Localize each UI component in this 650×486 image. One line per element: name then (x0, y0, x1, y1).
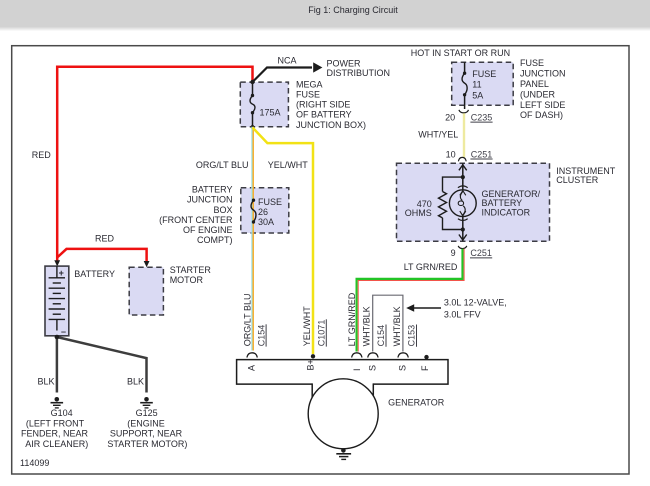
svg-text:S: S (397, 365, 407, 371)
svg-text:G104: G104 (51, 408, 73, 418)
connector C251 lower (458, 246, 467, 249)
junction dot battery negative (55, 335, 60, 340)
svg-text:175A: 175A (260, 107, 281, 117)
svg-text:3.0L 12-VALVE,: 3.0L 12-VALVE, (444, 297, 507, 307)
fuse element 11 (462, 62, 467, 109)
svg-text:I: I (352, 368, 362, 371)
svg-text:Fig 1: Charging Circuit: Fig 1: Charging Circuit (308, 5, 398, 15)
svg-text:3.0L FFV: 3.0L FFV (444, 310, 481, 320)
svg-text:20: 20 (445, 112, 455, 122)
svg-text:G125: G125 (136, 408, 158, 418)
NCA power distribution arrow (253, 62, 323, 82)
wire lt grn/red (357, 249, 465, 352)
svg-text:C251: C251 (470, 248, 492, 258)
svg-text:BOX: BOX (213, 205, 232, 215)
cluster internal wire (459, 163, 467, 241)
bracket 3.0L callout (373, 295, 403, 351)
svg-text:RED: RED (32, 150, 52, 160)
junction dot mega fuse top (250, 80, 254, 84)
battery junction box fuse 26 box (241, 188, 289, 233)
fuse 11 box (452, 62, 514, 105)
svg-text:PANEL: PANEL (520, 79, 549, 89)
svg-text:COMPT): COMPT) (197, 235, 233, 245)
svg-text:HOT IN START OR RUN: HOT IN START OR RUN (411, 48, 510, 58)
svg-text:(FRONT CENTER: (FRONT CENTER (159, 215, 233, 225)
svg-text:26: 26 (258, 207, 268, 217)
svg-text:C1071: C1071 (317, 320, 327, 347)
svg-text:LT GRN/RED: LT GRN/RED (404, 262, 458, 272)
svg-text:C153: C153 (407, 325, 417, 347)
svg-text:POWER: POWER (327, 58, 362, 68)
svg-text:DISTRIBUTION: DISTRIBUTION (327, 68, 391, 78)
svg-text:BLK: BLK (38, 376, 55, 386)
svg-text:5A: 5A (472, 91, 483, 101)
svg-text:AIR CLEANER): AIR CLEANER) (25, 439, 88, 449)
arrowhead at battery positive (54, 260, 60, 266)
svg-text:GENERATOR: GENERATOR (388, 398, 445, 408)
wire red branch to starter motor (57, 249, 146, 262)
svg-text:11: 11 (472, 80, 481, 90)
svg-text:FUSE: FUSE (520, 58, 544, 68)
svg-text:10: 10 (446, 149, 456, 159)
ground G125 (140, 397, 153, 408)
svg-text:RED: RED (95, 234, 115, 244)
svg-text:9: 9 (451, 248, 456, 258)
svg-text:JUNCTION: JUNCTION (520, 69, 566, 79)
title bar (0, 0, 650, 31)
starter motor box (129, 267, 163, 315)
svg-text:MEGA: MEGA (296, 79, 323, 89)
svg-text:+: + (59, 268, 64, 278)
svg-text:S: S (368, 365, 378, 371)
svg-text:BATTERY: BATTERY (74, 269, 115, 279)
svg-text:C154: C154 (256, 325, 266, 347)
svg-text:(RIGHT SIDE: (RIGHT SIDE (296, 100, 350, 110)
svg-text:LEFT SIDE: LEFT SIDE (520, 100, 565, 110)
wire blk right to G125 (57, 337, 147, 393)
svg-text:ORG/LT BLU: ORG/LT BLU (196, 160, 249, 170)
wire red battery feed (57, 67, 252, 261)
svg-text:OF DASH): OF DASH) (520, 110, 563, 120)
arrowhead at starter motor (144, 261, 150, 267)
dot at F terminal (424, 355, 428, 359)
svg-text:–: – (61, 327, 66, 337)
connector at S1 terminal (368, 353, 378, 358)
svg-text:BLK: BLK (127, 376, 144, 386)
svg-text:WHT/YEL: WHT/YEL (418, 130, 458, 140)
fuse element 26 (251, 199, 256, 224)
svg-text:INDICATOR: INDICATOR (482, 207, 531, 217)
ground G104 (51, 397, 64, 408)
battery (45, 266, 69, 336)
svg-text:FUSE: FUSE (296, 90, 320, 100)
svg-text:SUPPORT, NEAR: SUPPORT, NEAR (110, 429, 183, 439)
connector dot B+ (311, 354, 315, 358)
connector at A terminal (247, 353, 257, 358)
svg-text:30A: 30A (258, 217, 274, 227)
svg-text:STARTER MOTOR): STARTER MOTOR) (107, 439, 187, 449)
svg-text:FUSE: FUSE (472, 69, 496, 79)
generator circle (308, 379, 378, 449)
fuse element 175A (250, 82, 255, 127)
generator terminal bar (237, 360, 448, 398)
wire org/lt blu (252, 127, 253, 351)
svg-text:OF ENGINE: OF ENGINE (183, 225, 233, 235)
svg-text:(UNDER: (UNDER (520, 89, 555, 99)
wire wht/yel (463, 113, 465, 157)
svg-text:(ENGINE: (ENGINE (127, 418, 165, 428)
callout arrow 3.0L (406, 304, 441, 311)
resistor 470 ohms (439, 177, 463, 229)
svg-text:C235: C235 (471, 112, 493, 122)
svg-text:STARTER: STARTER (170, 265, 212, 275)
svg-text:CLUSTER: CLUSTER (556, 175, 599, 185)
mega fuse box (240, 82, 288, 127)
svg-text:(LEFT FRONT: (LEFT FRONT (26, 418, 85, 428)
connector C251 upper (458, 157, 466, 161)
svg-text:YEL/WHT: YEL/WHT (268, 160, 309, 170)
svg-text:B+: B+ (306, 359, 316, 370)
svg-text:FENDER, NEAR: FENDER, NEAR (21, 429, 89, 439)
indicator lamp (449, 186, 476, 221)
svg-text:OF BATTERY: OF BATTERY (296, 110, 352, 120)
svg-text:WHT/BLK: WHT/BLK (361, 306, 371, 346)
svg-text:OHMS: OHMS (405, 208, 432, 218)
wire yel/wht (253, 128, 314, 355)
connector at I terminal (352, 353, 362, 358)
svg-text:YEL/WHT: YEL/WHT (302, 306, 312, 347)
svg-text:WHT/BLK: WHT/BLK (392, 306, 402, 346)
svg-text:MOTOR: MOTOR (170, 275, 204, 285)
generator ground (336, 448, 351, 459)
svg-text:C251: C251 (471, 149, 493, 159)
svg-text:F: F (420, 365, 430, 371)
connector C235 (459, 110, 469, 113)
junction dot mega fuse bottom (251, 125, 255, 129)
svg-text:NCA: NCA (277, 55, 296, 65)
svg-text:JUNCTION BOX): JUNCTION BOX) (296, 120, 366, 130)
junction dots cluster (461, 175, 465, 179)
svg-text:ORG/LT BLU: ORG/LT BLU (242, 294, 252, 347)
svg-text:A: A (246, 365, 256, 371)
connector at S2 terminal (398, 353, 408, 358)
svg-text:BATTERY: BATTERY (192, 185, 233, 195)
svg-text:FUSE: FUSE (258, 197, 282, 207)
svg-text:LT GRN/RED: LT GRN/RED (347, 292, 357, 346)
svg-text:114099: 114099 (20, 458, 49, 468)
instrument cluster box (397, 163, 550, 241)
svg-text:JUNCTION: JUNCTION (187, 195, 233, 205)
svg-text:C154: C154 (376, 325, 386, 347)
wire blk left to G104 (56, 336, 59, 393)
